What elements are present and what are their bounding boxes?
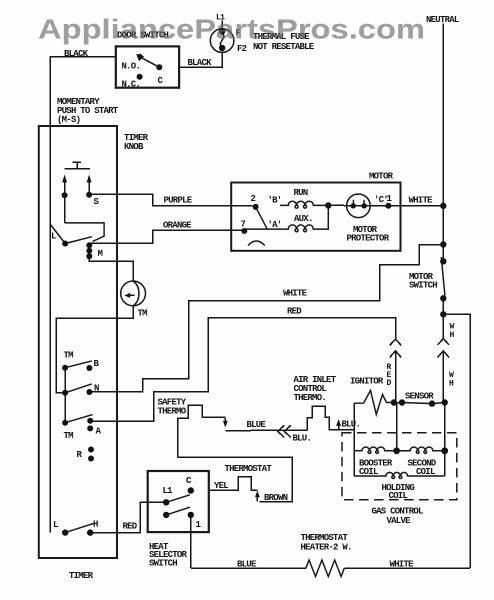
svg-text:PROTECTOR: PROTECTOR — [347, 234, 390, 244]
momentary contact arrows — [64, 181, 66, 195]
svg-text:(M-S): (M-S) — [57, 115, 80, 125]
wire from left momentary contact — [64, 195, 66, 223]
svg-text:BLU.: BLU. — [342, 420, 361, 430]
svg-text:GAS CONTROL: GAS CONTROL — [372, 507, 424, 517]
svg-text:TM: TM — [64, 351, 74, 361]
thermal fuse F2 — [210, 29, 234, 53]
connector chevrons blue harness — [278, 425, 285, 437]
svg-text:AUX.: AUX. — [294, 214, 313, 224]
svg-text:M: M — [98, 249, 103, 259]
motor switch — [441, 257, 445, 296]
wire neutral down to motor switch — [442, 206, 444, 261]
svg-text:COIL: COIL — [389, 491, 408, 501]
wire PURPLE S to motor pin 2 — [89, 194, 252, 206]
wire timer motor return to N pivot — [56, 306, 133, 393]
wire BLACK from door switch N.O. to left rail — [50, 57, 116, 533]
svg-text:THERMO.: THERMO. — [158, 407, 191, 417]
svg-text:SWITCH: SWITCH — [149, 558, 177, 568]
svg-text:N: N — [94, 384, 99, 394]
svg-text:THERMOSTAT: THERMOSTAT — [225, 464, 273, 474]
node N pivot — [62, 390, 68, 396]
contact L upper — [50, 224, 65, 244]
svg-text:TIMER: TIMER — [69, 571, 94, 581]
door switch arm — [141, 57, 160, 67]
contact N.C. dot — [137, 74, 143, 80]
svg-text:SENSOR: SENSOR — [405, 392, 434, 402]
node motor switch common — [440, 241, 446, 247]
timer box — [39, 126, 117, 558]
wire TM chain vertical — [64, 368, 66, 423]
svg-text:WHITE: WHITE — [409, 196, 434, 206]
contact A — [87, 418, 93, 424]
holding coil — [354, 472, 444, 476]
svg-text:N.O.: N.O. — [122, 61, 141, 71]
gas control valve dashed box — [342, 433, 457, 500]
heat selector lower pole — [163, 512, 169, 518]
wire neutral rail — [442, 24, 444, 206]
svg-text:L: L — [51, 232, 56, 242]
node run/aux junction — [325, 202, 331, 208]
connector arrow on red wire — [390, 351, 402, 358]
svg-text:BLACK: BLACK — [64, 49, 89, 59]
door switch S1 — [116, 46, 179, 87]
node coil junction — [393, 447, 400, 454]
connector arrow up BROWN — [256, 495, 258, 502]
wire BLUE to connector — [225, 429, 307, 431]
wire junction down to coils — [396, 403, 398, 451]
node neutral junction — [440, 203, 446, 209]
svg-text:MOTOR: MOTOR — [369, 172, 394, 182]
pin 1 — [188, 512, 194, 518]
svg-text:2: 2 — [251, 194, 256, 204]
svg-text:RED: RED — [123, 522, 138, 532]
timer motor TM — [121, 281, 146, 306]
wire RED H to heat selector L1 — [90, 502, 166, 532]
wire BLUE bottom — [191, 567, 306, 569]
svg-text:IGNITOR: IGNITOR — [350, 377, 384, 387]
wire M to timer motor — [89, 256, 133, 281]
svg-text:BROWN: BROWN — [264, 493, 288, 503]
svg-text:BLUE: BLUE — [237, 560, 257, 570]
svg-text:BLUE: BLUE — [247, 420, 267, 430]
connector arrow W-H harness lower — [438, 351, 450, 358]
contact S dot and label — [86, 192, 92, 198]
svg-text:'B': 'B' — [268, 196, 282, 206]
booster coil — [354, 447, 396, 451]
svg-text:BLU.: BLU. — [293, 434, 312, 444]
node ignitor junction — [391, 399, 397, 405]
wire M-S linkage — [65, 223, 105, 242]
motor protector — [347, 194, 371, 218]
motor start switch arm — [256, 207, 268, 230]
connector arrow up BLU — [338, 424, 340, 430]
motor box — [231, 183, 400, 251]
svg-text:TM: TM — [138, 309, 148, 319]
contact N.O. dot — [137, 54, 142, 59]
wire right rail of valve — [444, 403, 446, 477]
svg-text:HEATER-2 W.: HEATER-2 W. — [301, 543, 352, 553]
svg-text:H: H — [93, 520, 98, 530]
svg-text:L: L — [53, 520, 58, 530]
svg-text:7: 7 — [241, 220, 246, 230]
svg-text:F2: F2 — [237, 44, 247, 54]
wire pin 1 down to blue — [190, 515, 192, 568]
svg-text:RUN: RUN — [294, 188, 308, 198]
contact L dot and arm — [62, 241, 68, 247]
svg-text:SWITCH: SWITCH — [409, 281, 437, 291]
wire ORANGE M to motor pin 7 — [90, 230, 244, 243]
wire white return from timer N to motor switch — [89, 245, 443, 392]
svg-text:BLACK: BLACK — [188, 58, 213, 68]
wire ignitor lead down to blue — [353, 403, 355, 430]
connector arrow down on blue wire — [224, 418, 226, 424]
contact M — [86, 242, 92, 248]
wire safety thermo to thermostat return loop — [178, 457, 293, 501]
wire WHITE bottom — [344, 567, 470, 569]
wire WHITE motor to neutral — [388, 205, 443, 207]
connector fork on red wire — [390, 339, 402, 345]
svg-text:VALVE: VALVE — [387, 516, 412, 526]
wire right rail to bottom white — [443, 314, 470, 568]
centrifugal actuator arc — [248, 241, 265, 246]
second coil — [397, 447, 445, 451]
wire blue into valve — [353, 430, 355, 476]
svg-text:YEL: YEL — [214, 481, 228, 491]
svg-text:NEUTRAL: NEUTRAL — [426, 15, 459, 25]
timer knob push bar T — [65, 162, 91, 168]
svg-text:WHITE: WHITE — [283, 289, 308, 299]
svg-text:THERMOSTAT: THERMOSTAT — [301, 533, 349, 543]
wire BLACK from door switch C to fuse F2 — [179, 53, 222, 68]
svg-text:ORANGE: ORANGE — [163, 221, 192, 231]
wire junction to protector — [328, 204, 388, 206]
svg-text:PURPLE: PURPLE — [164, 196, 193, 206]
svg-text:AppliancePartsPros.com: AppliancePartsPros.com — [38, 14, 425, 45]
svg-text:WHITE: WHITE — [390, 560, 415, 570]
svg-text:RED: RED — [287, 307, 302, 317]
svg-text:TM: TM — [64, 431, 74, 441]
svg-text:THERMO.: THERMO. — [294, 393, 327, 403]
svg-text:KNOB: KNOB — [124, 142, 144, 152]
svg-text:N.C.: N.C. — [122, 80, 141, 90]
heat selector switch box — [148, 471, 209, 532]
connector fork W-H neutral harness — [442, 314, 444, 339]
svg-text:L1: L1 — [163, 486, 174, 496]
contact TM lower — [62, 420, 68, 426]
contact dot left momentary — [62, 192, 68, 198]
wire RED from timer A to ignitor — [90, 318, 395, 422]
